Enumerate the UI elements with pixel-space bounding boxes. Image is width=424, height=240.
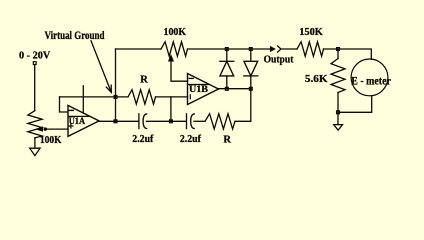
node U1A output junction — [114, 120, 117, 123]
wire top rail left — [116, 48, 162, 50]
resistor R1 body — [128, 90, 156, 104]
wire U1A output to cap1 — [99, 120, 138, 122]
wire virtual-ground rail — [60, 96, 129, 98]
svg-text:U1A: U1A — [69, 117, 86, 127]
node diode1 bottom — [225, 87, 228, 90]
node diode2 top — [249, 48, 252, 51]
node virtual ground junction — [114, 96, 117, 99]
svg-text:0 - 20V: 0 - 20V — [19, 51, 51, 62]
leader arrow virtual ground — [91, 41, 111, 93]
wire R1 to U1B plus — [156, 96, 188, 98]
resistor R2 body — [205, 114, 235, 129]
node cap junction — [170, 120, 173, 123]
output arrowhead — [271, 47, 275, 51]
diode D1 — [226, 49, 228, 61]
wire output to 150K — [281, 48, 297, 50]
U1A plus symbol — [69, 125, 73, 127]
svg-text:5.6K: 5.6K — [305, 74, 329, 85]
100K wiper arrow up — [169, 56, 173, 61]
svg-text:2.2uf: 2.2uf — [132, 134, 153, 145]
wire junction down to 5.6K — [337, 49, 339, 59]
resistor 5.6K body — [331, 59, 345, 93]
svg-text:100K: 100K — [164, 27, 187, 38]
U1B plus symbol — [189, 95, 191, 99]
resistor 100K feedback body — [161, 42, 188, 56]
wire 150K to meter corner — [324, 49, 372, 59]
svg-text:R: R — [140, 75, 148, 86]
node 5.6K top junction — [337, 48, 340, 51]
U1A overline — [69, 115, 90, 117]
svg-text:150K: 150K — [299, 27, 324, 38]
ground pot — [30, 148, 40, 155]
U1A minus symbol — [69, 109, 73, 111]
svg-text:100K: 100K — [40, 135, 62, 146]
wire feedback bend to U1A minus — [60, 97, 69, 112]
U1B overline — [189, 84, 209, 86]
potentiometer R 100K body — [28, 111, 42, 138]
node meter bottom junction — [337, 111, 340, 114]
wire wiper to U1A + input — [45, 128, 68, 130]
svg-text:2.2uf: 2.2uf — [180, 134, 201, 145]
svg-text:Output: Output — [264, 54, 294, 65]
wire pot to ground — [34, 138, 36, 148]
wire top rail middle — [188, 48, 273, 50]
wire 100K wiper to U1B minus — [171, 61, 188, 82]
svg-text:R: R — [223, 134, 231, 145]
wire cap junction riser — [170, 97, 172, 121]
svg-text:E - meter: E - meter — [351, 74, 391, 88]
wire meter bottom — [338, 96, 372, 113]
wire cap1 to cap2 — [146, 120, 186, 122]
node diode1 top — [225, 48, 228, 51]
resistor 150K body — [297, 42, 324, 56]
wire 5.6K to bottom junction — [337, 93, 339, 125]
wire U1B output rail — [219, 88, 251, 90]
op-amp U1A — [68, 105, 99, 136]
pot wiper arrow — [37, 127, 42, 131]
svg-text:U1B: U1B — [189, 85, 209, 95]
wire cap2 to R2 — [194, 120, 205, 122]
U1B minus symbol — [189, 77, 193, 79]
diode D2 — [250, 49, 252, 61]
wire main vertical left — [115, 49, 117, 121]
node input terminal — [33, 62, 36, 65]
output chevron — [278, 46, 281, 52]
wire input terminal to pot — [34, 65, 36, 110]
U1A power stub — [82, 86, 84, 113]
op-amp U1B — [188, 74, 219, 105]
capacitor C1 — [138, 114, 140, 129]
node diode2 bottom — [249, 87, 252, 90]
svg-text:Virtual Ground: Virtual Ground — [45, 30, 105, 42]
E-meter circle — [351, 59, 388, 96]
ground right — [334, 125, 343, 131]
wire diode2 down to caps rail — [235, 89, 251, 122]
capacitor C2 — [186, 114, 188, 129]
